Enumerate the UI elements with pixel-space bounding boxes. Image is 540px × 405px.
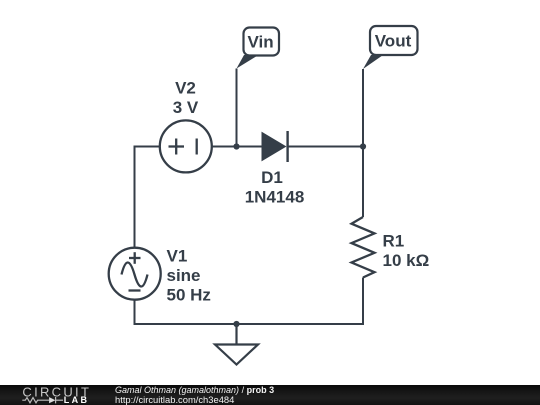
voltage source V2 (DC, 3 V): [160, 120, 212, 172]
svg-text:V1: V1: [167, 247, 188, 266]
node Vout junction dot: [360, 143, 366, 149]
voltage source V1 (sine, 50 Hz): [109, 248, 161, 300]
diode D1: [262, 131, 288, 162]
node Vin junction dot: [233, 143, 239, 149]
svg-text:LAB: LAB: [64, 395, 90, 405]
footer bar: [0, 385, 540, 405]
ground: [215, 324, 258, 365]
wire: right rail lower (R1 to bottom rail): [362, 278, 364, 326]
wire: V2 right to diode anode: [211, 146, 262, 148]
wire: right rail upper (junction to R1): [362, 147, 364, 218]
wire: Vout flag drop: [362, 69, 364, 147]
node flag Vout: [363, 26, 418, 69]
svg-text:R1: R1: [383, 232, 405, 251]
svg-text:D1: D1: [261, 168, 283, 187]
wire: top rail left segment: [135, 146, 161, 148]
CircuitLab logo: [0, 385, 110, 405]
svg-text:V2: V2: [175, 79, 196, 98]
label V1 value: [167, 247, 211, 305]
wire: left rail lower (V1 to bottom rail): [134, 299, 136, 325]
label V2 value: [173, 79, 199, 118]
svg-text:Vout: Vout: [375, 32, 412, 51]
resistor R1: [352, 217, 375, 278]
svg-text:Vin: Vin: [248, 33, 274, 52]
svg-text:sine: sine: [167, 266, 201, 285]
wire: left rail upper (top rail corner down to V1): [134, 146, 136, 249]
label R1 value: [383, 232, 430, 271]
wire: bottom rail: [135, 323, 364, 325]
ground junction dot: [233, 321, 239, 327]
svg-text:1N4148: 1N4148: [245, 188, 305, 207]
svg-text:3 V: 3 V: [173, 98, 199, 117]
wire: Vin flag drop: [236, 69, 238, 147]
svg-text:50 Hz: 50 Hz: [167, 286, 211, 305]
label D1 value: [245, 168, 305, 207]
node flag Vin: [237, 28, 280, 69]
wire: diode cathode to right rail: [288, 146, 364, 148]
svg-text:10 kΩ: 10 kΩ: [383, 251, 430, 270]
